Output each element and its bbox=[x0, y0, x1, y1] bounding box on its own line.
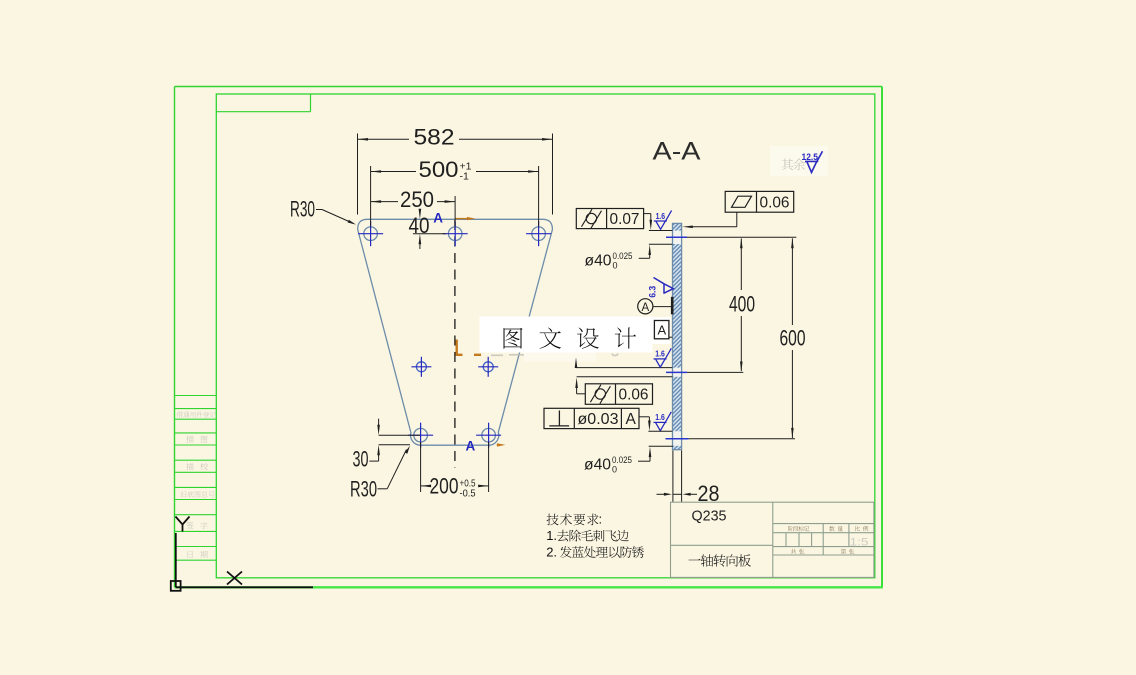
dimension 400 bbox=[729, 238, 755, 372]
svg-text:R30: R30 bbox=[350, 477, 377, 502]
hole mid-right bbox=[483, 362, 493, 372]
section cutting centerline A-A (dashed) bbox=[454, 220, 456, 468]
svg-text:A: A bbox=[466, 439, 476, 454]
dimension 250 bbox=[371, 187, 456, 227]
svg-text:ø0.03: ø0.03 bbox=[578, 411, 619, 428]
extension line bottom (600) bbox=[689, 438, 795, 440]
leader R30 top bbox=[290, 197, 356, 225]
dimension 582 bbox=[358, 125, 553, 215]
hole bottom-left bbox=[414, 428, 428, 442]
section arrow top (orange) bbox=[456, 217, 476, 220]
svg-text:ø40: ø40 bbox=[584, 457, 611, 474]
svg-text:200: 200 bbox=[430, 474, 459, 499]
svg-text:250: 250 bbox=[400, 187, 434, 212]
top-left accessory block bbox=[216, 94, 310, 112]
svg-text:1.6: 1.6 bbox=[655, 350, 665, 359]
svg-text:0.025: 0.025 bbox=[613, 251, 633, 261]
dimension 500+1-1 bbox=[371, 157, 539, 227]
svg-text:R30: R30 bbox=[290, 197, 315, 222]
datum feature box A bbox=[654, 321, 672, 339]
GDT frame flatness 0.06 bbox=[725, 191, 794, 212]
section bar outline and hatch bbox=[673, 223, 682, 449]
svg-text:-1: -1 bbox=[460, 171, 469, 183]
svg-text:500: 500 bbox=[419, 157, 459, 182]
part name 一轴转向板 bbox=[688, 554, 750, 566]
svg-text:0: 0 bbox=[612, 464, 617, 474]
svg-text:A: A bbox=[433, 211, 443, 226]
GDT frame cylindricity 0.07 bbox=[576, 209, 643, 229]
svg-text:0.06: 0.06 bbox=[760, 195, 790, 212]
outer border frame bbox=[175, 87, 883, 588]
dia 40 lower text and leader bbox=[584, 447, 651, 475]
hole bottom-right bbox=[482, 428, 496, 442]
svg-text:600: 600 bbox=[780, 325, 806, 350]
leader from 0.07 to bar bbox=[644, 214, 653, 231]
svg-text:Q235: Q235 bbox=[692, 508, 727, 525]
datum target circle A bbox=[638, 297, 673, 315]
title block small labels bbox=[788, 526, 868, 554]
hole top edge line (upper) bbox=[649, 230, 673, 232]
svg-text:0.06: 0.06 bbox=[619, 387, 649, 404]
svg-text:2.: 2. bbox=[546, 544, 557, 559]
surface check 1.6 top bbox=[654, 210, 672, 229]
hole mid-left bbox=[416, 362, 426, 372]
svg-text:6.3: 6.3 bbox=[648, 286, 658, 298]
dimension 28 bbox=[657, 451, 720, 507]
dimension 40 bbox=[409, 209, 447, 249]
surface check 1.6 bottom bbox=[654, 412, 672, 431]
watermark background bbox=[480, 317, 653, 353]
svg-text:0.025: 0.025 bbox=[612, 455, 632, 465]
svg-text:A: A bbox=[658, 323, 667, 338]
dimension 30 bbox=[353, 419, 421, 472]
svg-text:ø40: ø40 bbox=[585, 253, 612, 270]
mid hole upper edge line with finish arrow bbox=[575, 358, 673, 369]
hole top-right bbox=[532, 227, 546, 241]
leader from 0.06 flatness to bar bbox=[682, 212, 737, 228]
surface note 其余 12.5 bbox=[770, 146, 828, 176]
svg-text:582: 582 bbox=[414, 125, 455, 150]
bottom hole lower edge line bbox=[649, 445, 673, 447]
surface check 1.6 middle bbox=[654, 348, 672, 367]
svg-text:-0.5: -0.5 bbox=[460, 488, 476, 500]
extension line top (400/600) bbox=[687, 236, 796, 238]
svg-text:40: 40 bbox=[409, 213, 430, 238]
svg-text:0.07: 0.07 bbox=[610, 211, 640, 228]
faint marks under watermark bbox=[491, 354, 618, 356]
svg-text:12.5: 12.5 bbox=[802, 152, 819, 162]
svg-text:1.6: 1.6 bbox=[656, 212, 666, 221]
blue centerline tick bottom hole bbox=[666, 438, 689, 440]
svg-text:0: 0 bbox=[613, 260, 618, 270]
svg-text:30: 30 bbox=[353, 447, 369, 472]
hole top-left bbox=[364, 227, 378, 241]
svg-text:1.: 1. bbox=[546, 528, 557, 543]
blue centerline tick middle hole bbox=[666, 371, 687, 373]
hole top-center bbox=[448, 227, 462, 241]
GDT frame cylindricity 0.06 bbox=[585, 384, 652, 405]
svg-text:1:5: 1:5 bbox=[850, 537, 869, 549]
svg-text:1.6: 1.6 bbox=[655, 413, 665, 422]
dia 40 upper text and leader bbox=[585, 244, 673, 270]
GDT frame perpendicularity 0.03 A bbox=[544, 408, 639, 428]
left column labels bbox=[177, 411, 216, 558]
surface check 6.3 rotated bbox=[654, 278, 674, 294]
tech requirements text bbox=[546, 512, 644, 560]
dimension 600 bbox=[780, 238, 806, 439]
leader from perpendicularity to bar bbox=[639, 417, 651, 431]
watermark text 图文设计 bbox=[504, 327, 637, 348]
svg-text::: : bbox=[599, 512, 603, 527]
dimension 200+0.5-0.5 bbox=[421, 442, 489, 500]
part outline (front view trapezoid) bbox=[358, 219, 553, 445]
svg-text:A: A bbox=[626, 411, 637, 428]
blue centerline tick top hole bbox=[666, 236, 687, 238]
bottom hole upper edge line bbox=[648, 430, 672, 432]
orange center mark bbox=[456, 340, 482, 356]
svg-text:A-A: A-A bbox=[653, 138, 701, 166]
section arrow bottom (orange) bbox=[497, 443, 506, 446]
leader R30 bottom bbox=[350, 446, 410, 502]
inner border frame bbox=[216, 94, 875, 578]
mid hole lower edge line + leader to 0.06 cyl bbox=[575, 377, 672, 394]
extension line mid (400) bbox=[687, 371, 743, 373]
title block grid bbox=[671, 502, 874, 577]
svg-text:400: 400 bbox=[729, 292, 755, 317]
left column table bbox=[175, 396, 217, 561]
svg-text:A: A bbox=[642, 302, 650, 314]
UCS axis icon bbox=[171, 517, 313, 591]
